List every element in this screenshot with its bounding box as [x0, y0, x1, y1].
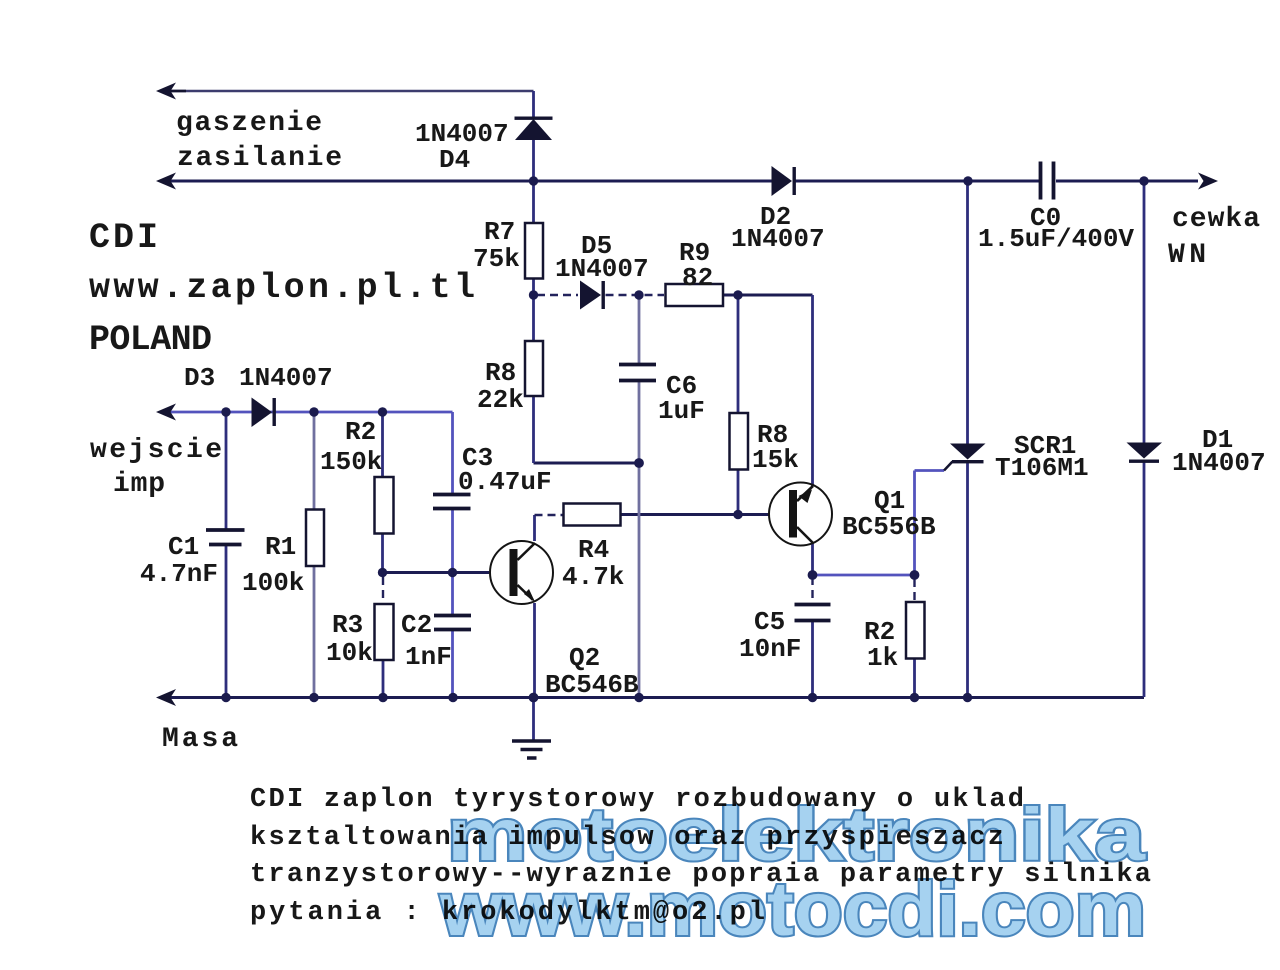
- svg-text:C1: C1: [168, 532, 199, 562]
- svg-text:1N4007: 1N4007: [239, 363, 333, 393]
- svg-text:D3: D3: [184, 363, 215, 393]
- svg-text:BC556B: BC556B: [842, 512, 936, 542]
- svg-text:wejscie: wejscie: [90, 435, 222, 466]
- svg-text:1.5uF/400V: 1.5uF/400V: [978, 224, 1134, 254]
- svg-text:imp: imp: [113, 469, 165, 500]
- svg-text:POLAND: POLAND: [89, 320, 212, 360]
- svg-text:22k: 22k: [477, 385, 524, 415]
- svg-text:150k: 150k: [320, 447, 382, 477]
- svg-text:R2: R2: [345, 417, 376, 447]
- svg-text:R8: R8: [485, 358, 516, 388]
- svg-text:1k: 1k: [867, 643, 898, 673]
- svg-text:BC546B: BC546B: [545, 670, 639, 700]
- svg-text:10nF: 10nF: [739, 634, 801, 664]
- svg-text:82: 82: [682, 263, 713, 293]
- svg-text:R7: R7: [484, 217, 515, 247]
- svg-text:cewka: cewka: [1172, 204, 1260, 235]
- svg-text:75k: 75k: [473, 244, 520, 274]
- svg-text:15k: 15k: [752, 445, 799, 475]
- svg-text:1N4007: 1N4007: [1172, 448, 1266, 478]
- svg-text:C5: C5: [754, 607, 785, 637]
- svg-text:www.motocdi.com: www.motocdi.com: [439, 867, 1146, 952]
- svg-text:R1: R1: [265, 532, 296, 562]
- svg-text:D4: D4: [439, 145, 470, 175]
- svg-text:1N4007: 1N4007: [555, 254, 649, 284]
- svg-text:CDI: CDI: [89, 218, 158, 258]
- svg-text:4.7k: 4.7k: [562, 562, 624, 592]
- svg-text:4.7nF: 4.7nF: [140, 559, 218, 589]
- svg-text:1N4007: 1N4007: [731, 224, 825, 254]
- svg-text:R4: R4: [578, 535, 609, 565]
- svg-text:Q2: Q2: [569, 643, 600, 673]
- svg-text:1nF: 1nF: [405, 642, 452, 672]
- svg-text:gaszenie: gaszenie: [176, 108, 322, 139]
- svg-text:motoelektronika: motoelektronika: [447, 793, 1146, 876]
- svg-text:100k: 100k: [242, 568, 304, 598]
- svg-text:10k: 10k: [326, 638, 373, 668]
- svg-text:1uF: 1uF: [658, 396, 705, 426]
- svg-text:zasilanie: zasilanie: [177, 143, 342, 174]
- svg-text:R3: R3: [332, 610, 363, 640]
- svg-text:T106M1: T106M1: [995, 453, 1089, 483]
- svg-text:0.47uF: 0.47uF: [458, 467, 552, 497]
- svg-text:C2: C2: [401, 610, 432, 640]
